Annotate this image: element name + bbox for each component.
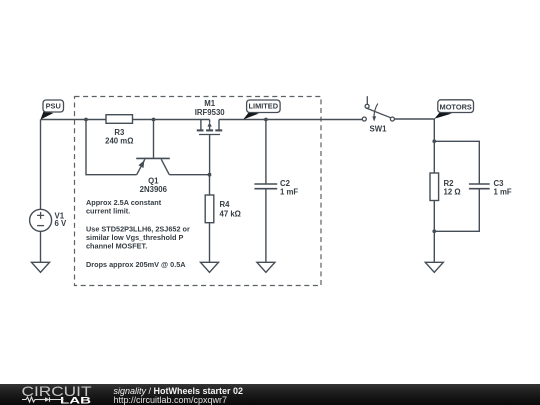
ground under motors branch <box>425 262 443 272</box>
footer bar <box>0 384 540 405</box>
annotation text block <box>86 198 190 269</box>
node junction motors top <box>432 139 436 143</box>
ground under V1 <box>32 262 50 272</box>
node junction at R3 right / Q1 base <box>152 118 156 122</box>
svg-text:47 kΩ: 47 kΩ <box>220 209 241 218</box>
transistor Q1 (PNP 2N3906) <box>136 120 170 195</box>
annotation dashed box <box>75 97 322 286</box>
svg-text:SW1: SW1 <box>370 124 388 133</box>
ground under R4 <box>201 262 219 272</box>
svg-text:LAB: LAB <box>60 396 91 405</box>
svg-text:6 V: 6 V <box>55 219 68 228</box>
MOSFET M1 (P-channel IRF9530) <box>195 99 226 175</box>
net flag LIMITED <box>243 100 280 120</box>
resistor R4 <box>205 175 241 262</box>
node junction at left tap <box>84 118 88 122</box>
wire M1 drain to SW1 <box>219 119 362 121</box>
svg-text:12 Ω: 12 Ω <box>444 187 461 196</box>
footer title line <box>114 386 244 396</box>
svg-text:R4: R4 <box>220 200 231 209</box>
svg-text:PSU: PSU <box>46 102 61 111</box>
svg-text:R3: R3 <box>114 128 125 137</box>
svg-text:1 mF: 1 mF <box>280 188 298 197</box>
net flag PSU <box>41 100 64 120</box>
svg-text:1 mF: 1 mF <box>494 187 512 196</box>
wire R3 to M1 source <box>133 119 210 121</box>
wire SW1 to MOTORS corner <box>395 119 435 141</box>
footer logo CIRCUIT LAB <box>0 384 110 405</box>
svg-text:current limit.: current limit. <box>86 207 130 216</box>
resistor R2 <box>430 173 461 231</box>
capacitor C2 <box>254 120 298 263</box>
wire to motors ground <box>433 231 435 262</box>
svg-text:channel MOSFET.: channel MOSFET. <box>86 241 147 250</box>
svg-text:2N3906: 2N3906 <box>140 185 168 194</box>
footer url line <box>114 395 228 405</box>
resistor R3 <box>105 115 133 146</box>
svg-text:Drops approx 205mV @ 0.5A: Drops approx 205mV @ 0.5A <box>86 260 186 269</box>
node junction at C2 tap <box>264 118 268 122</box>
ground under C2 <box>257 262 275 272</box>
svg-text:Approx 2.5A constant: Approx 2.5A constant <box>86 198 162 207</box>
node junction gate/R4 <box>208 173 212 177</box>
net flag MOTORS <box>434 100 473 119</box>
svg-text:IRF9530: IRF9530 <box>195 108 226 117</box>
wire main rail PSU to R3 <box>41 119 107 121</box>
wire R2 branch <box>433 141 435 173</box>
voltage source V1 <box>30 120 67 263</box>
wire Q1 collector to gate node <box>169 174 209 176</box>
svg-text:LIMITED: LIMITED <box>249 102 279 111</box>
wire left tap down to emitter <box>86 120 137 175</box>
wire C3 branch <box>434 141 479 184</box>
svg-text:MOTORS: MOTORS <box>440 102 472 111</box>
capacitor C3 <box>434 179 512 232</box>
svg-text:240 mΩ: 240 mΩ <box>105 137 133 146</box>
switch SW1 <box>362 96 394 133</box>
node junction motors bottom <box>432 229 436 233</box>
